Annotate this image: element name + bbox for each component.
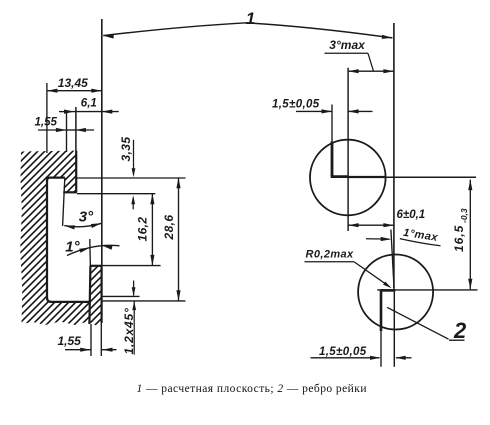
svg-text:1,5±0,05: 1,5±0,05 [319, 346, 367, 358]
svg-text:1,2x45°: 1,2x45° [122, 307, 136, 354]
svg-text:16,2: 16,2 [136, 217, 150, 242]
svg-text:2: 2 [453, 318, 467, 343]
svg-text:R0,2max: R0,2max [306, 248, 355, 260]
svg-text:3°max: 3°max [329, 38, 366, 52]
svg-text:1°max: 1°max [402, 227, 439, 244]
svg-text:1,55: 1,55 [35, 116, 58, 128]
svg-text:28,6: 28,6 [162, 215, 176, 241]
svg-text:1,55: 1,55 [58, 334, 82, 348]
svg-text:13,45: 13,45 [58, 76, 88, 90]
svg-text:1,5±0,05: 1,5±0,05 [272, 99, 320, 111]
svg-text:1°: 1° [65, 239, 80, 256]
svg-text:16,5: 16,5 [452, 225, 466, 252]
svg-text:1: 1 [246, 9, 255, 28]
svg-text:6,1: 6,1 [81, 98, 97, 110]
svg-text:1 — расчетная плоскость; 2 — р: 1 — расчетная плоскость; 2 — ребро рейки [137, 383, 367, 395]
svg-text:3,35: 3,35 [119, 137, 133, 162]
svg-text:-0,3: -0,3 [459, 208, 469, 223]
svg-text:6±0,1: 6±0,1 [397, 209, 426, 221]
svg-text:3°: 3° [79, 209, 94, 226]
